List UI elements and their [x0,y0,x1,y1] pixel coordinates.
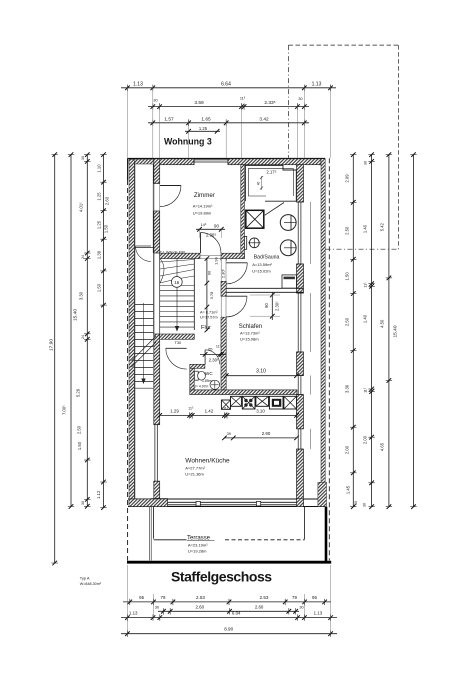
svg-text:T30: T30 [175,341,182,345]
top wall window (glazing) [194,159,228,165]
svg-text:1.99: 1.99 [214,256,219,265]
svg-text:A=13.59m²: A=13.59m² [252,262,272,267]
alcove inner dim [257,176,264,190]
west interior wall of Zimmer/stair (hatched segments) [154,159,160,499]
svg-text:11⁵: 11⁵ [364,387,368,393]
svg-text:Flur: Flur [201,325,211,331]
svg-text:1.39: 1.39 [97,250,102,259]
right dim column chain 5.42/4.50/4.65 [380,152,393,509]
svg-text:2.30⁵: 2.30⁵ [209,358,219,363]
svg-text:Schlafen: Schlafen [239,324,262,330]
bottom extension lines [127,565,330,634]
wall between Zimmer and Bad (hatched) [241,165,245,259]
svg-text:U=17.57m: U=17.57m [200,315,218,319]
svg-text:1.50: 1.50 [345,272,350,281]
dims near stair (1.99 / 90 / 2.30 / 3.78) [205,256,226,332]
south wall of WC + Schlafen (hatched band) [190,390,297,395]
svg-text:1.50: 1.50 [97,283,102,292]
sauna alcove outline [245,165,296,201]
Wohnen south wall with terrace window [128,482,327,506]
svg-text:90: 90 [214,223,219,228]
svg-text:2.30⁵: 2.30⁵ [221,268,226,278]
toilet in WC room [194,371,205,380]
svg-text:Staffelgeschoss: Staffelgeschoss [171,569,272,585]
west wall window of Wohnen [154,425,160,482]
svg-text:24: 24 [81,255,85,259]
svg-text:A=14.19m²: A=14.19m² [193,204,213,209]
top wall thin hatched band (over stair strip) [129,159,154,164]
kitchen counter [221,396,296,409]
svg-text:2.60: 2.60 [196,604,205,609]
svg-text:Wohnen/Küche: Wohnen/Küche [185,458,230,465]
svg-text:WC: WC [205,371,213,376]
WC room walls (hatched) [190,364,205,390]
svg-text:U=21.36m: U=21.36m [185,471,204,476]
svg-text:5.29: 5.29 [76,388,81,397]
svg-text:30: 30 [81,501,85,505]
svg-text:11⁵: 11⁵ [216,345,222,349]
svg-text:6.04: 6.04 [232,611,241,616]
right dim column chain 2.09/2.50/1.50/2.50/3.36/2.00/1.45 [345,152,359,509]
svg-text:2.30⁵: 2.30⁵ [206,233,217,238]
door Schlafen [226,296,247,317]
svg-text:2.53: 2.53 [196,595,205,600]
wash basin 2 [280,240,296,256]
svg-text:16: 16 [174,280,179,285]
svg-text:A=27.77m²: A=27.77m² [185,465,205,470]
svg-text:Bad/Sauna: Bad/Sauna [254,254,280,260]
svg-text:2.90: 2.90 [262,431,271,436]
WC toilet in Bad [244,236,260,249]
bottom dim row B (30/2.60/2.60/30) [155,604,304,614]
svg-text:4.50: 4.50 [380,319,385,328]
room Terrasse [187,535,215,553]
room Bad/Sauna [252,254,279,273]
heavy bottom site line [127,561,331,564]
right dim column 15.40 [393,152,417,509]
svg-text:95: 95 [139,595,144,600]
stair number circle [171,277,182,288]
svg-text:3.78: 3.78 [209,291,214,300]
svg-text:2.17⁵: 2.17⁵ [267,169,277,174]
svg-text:17.90: 17.90 [48,339,54,351]
svg-text:2.60: 2.60 [255,604,264,609]
svg-text:2.50: 2.50 [345,317,350,326]
svg-text:7.00⁵: 7.00⁵ [62,405,67,415]
svg-text:1.29: 1.29 [170,408,179,413]
dim Schlafen door [250,293,280,321]
top dimension row 1 (1.13 / 6.64 / 1.13) [121,81,336,91]
room Zimmer [193,192,215,216]
svg-text:2.60: 2.60 [105,196,110,205]
exterior door at stair top [136,246,152,262]
svg-text:15.40: 15.40 [393,325,399,337]
svg-text:1.42: 1.42 [205,408,214,413]
svg-text:4.01⁵: 4.01⁵ [79,202,84,212]
svg-text:14⁵: 14⁵ [201,223,207,227]
svg-text:90: 90 [264,303,269,308]
outer envelope left: solid then dashed property line [127,158,129,560]
svg-text:1.50: 1.50 [104,224,109,233]
wash basin in WC room [210,380,220,389]
svg-text:3.59: 3.59 [194,100,204,106]
exterior stair walking line with arrow [141,303,145,384]
svg-text:1.40: 1.40 [363,224,368,233]
Flur east wall with door openings (hatched segments) [221,259,226,390]
svg-text:30: 30 [298,97,302,101]
svg-text:1.10: 1.10 [97,164,102,173]
left dim column 15.40 [62,152,79,509]
svg-text:1.25: 1.25 [199,126,208,131]
svg-text:A=13.73m²: A=13.73m² [240,331,260,336]
svg-text:U= 4.97m: U= 4.97m [194,384,209,388]
Zimmer south wall (hatched, with door opening) [160,253,245,258]
svg-text:1.13: 1.13 [312,81,322,87]
svg-text:W=848,30m²: W=848,30m² [80,582,102,586]
svg-text:11⁵: 11⁵ [223,407,229,411]
sauna door diagonal [265,203,284,216]
svg-text:30: 30 [299,605,303,609]
dim Zimmer door [196,223,225,238]
svg-text:30: 30 [153,99,157,103]
svg-text:1.50: 1.50 [77,441,82,450]
heavy right edge below building [325,507,328,564]
ext stair bottom edge [135,387,153,389]
svg-text:1.25: 1.25 [97,192,102,201]
left dim column chain 30/4.01/24/3.30/24/5.29 [76,152,91,508]
west thin exterior wall (hatched) [129,159,134,506]
bottom dim row A (95/79/2.53/2.53/79/95) [123,595,331,605]
top dimension row 3b (1.25) [185,126,220,133]
stair break line (zigzag) [132,336,157,367]
svg-text:3.30: 3.30 [79,291,84,300]
top dimension row 2 (30 / 3.59 / 11.5 / 2.33.5 / 30) [148,97,309,110]
svg-text:30: 30 [81,156,85,160]
svg-text:2.50: 2.50 [77,425,82,434]
svg-text:39: 39 [227,432,231,436]
terrace outline [154,507,305,540]
svg-text:30: 30 [364,161,368,165]
facade gap rails at windows [310,202,312,449]
svg-text:U=15.08m: U=15.08m [240,337,259,342]
left dim column 17.90 [48,152,58,565]
svg-text:4.65: 4.65 [380,442,385,451]
east inner wall (hatched with window gaps) [297,165,304,507]
svg-text:U=15.02m: U=15.02m [252,269,271,274]
svg-text:3.42: 3.42 [259,116,269,122]
bottom dim row C (1.13/30/6.04/30/1.13) [121,611,337,621]
svg-text:11⁵: 11⁵ [364,282,368,288]
svg-text:1.13: 1.13 [314,611,323,616]
door sill lines [154,184,226,318]
door Bad [226,263,247,284]
svg-text:11⁵: 11⁵ [240,97,246,101]
svg-text:3.36: 3.36 [345,384,350,393]
svg-text:A=23.19m²: A=23.19m² [188,542,208,547]
svg-text:A= 8.71m²: A= 8.71m² [200,311,218,315]
svg-text:Zimmer: Zimmer [194,192,215,199]
dim WC door [200,345,226,363]
left dim column chain 1.10/1.25/1.25/1.39/1.50/1.12 [96,152,110,510]
dashed lower-storey line right [328,158,330,560]
room Schlafen [239,324,262,342]
svg-text:U=19.89m: U=19.89m [193,211,212,216]
right dim column chain 30/1.40/11.5/1.40/11.5/2.00 [363,152,375,509]
room Wohnen/Kueche [185,458,230,477]
dim Schlafen width 3.10 [224,369,299,378]
svg-text:79: 79 [292,595,297,600]
svg-text:30: 30 [354,501,358,505]
svg-text:1.40: 1.40 [363,314,368,323]
svg-text:3.10: 3.10 [256,369,266,375]
svg-text:2.00: 2.00 [363,435,368,444]
room WC [194,371,214,388]
svg-text:2.33⁵: 2.33⁵ [264,100,275,106]
svg-text:Wohnung 3: Wohnung 3 [164,137,212,147]
label Typ A [80,576,102,586]
wall Bad/Schlafen (double line) [226,288,303,292]
east outer facade leaf (thin hatch) [321,159,325,507]
svg-text:2.53: 2.53 [260,595,269,600]
svg-text:2.09: 2.09 [345,174,350,183]
svg-text:11⁵: 11⁵ [188,407,194,411]
top wall main hatch left of window [154,159,194,165]
svg-text:1.65: 1.65 [201,116,211,122]
svg-text:79: 79 [161,595,166,600]
door WC [205,350,220,365]
svg-text:Typ A: Typ A [80,576,90,581]
svg-text:30: 30 [363,503,367,507]
svg-text:2.00: 2.00 [345,445,350,454]
top extension lines [127,85,330,158]
svg-text:65: 65 [208,347,213,352]
svg-text:90: 90 [207,270,212,275]
terrace slab edge lines [149,507,151,561]
svg-text:5.42: 5.42 [380,222,385,231]
door Zimmer west [160,186,181,207]
stair walking line with arrow [175,258,179,332]
under-stair wall [160,334,195,339]
svg-text:24: 24 [81,335,85,339]
svg-text:1.25: 1.25 [97,220,102,229]
svg-text:6.64: 6.64 [221,81,231,87]
Vordach box [282,275,296,288]
svg-text:1.57: 1.57 [164,116,174,122]
svg-text:1.12: 1.12 [96,490,101,499]
svg-text:1.13: 1.13 [133,81,143,87]
svg-text:1.89m²: 1.89m² [202,379,213,383]
svg-text:30: 30 [155,605,159,609]
svg-text:40: 40 [257,182,261,186]
bottom dim row D (8.90) [121,627,337,637]
stair landing threshold [135,247,153,249]
interior stair [160,259,195,331]
svg-text:2.30⁵: 2.30⁵ [274,301,279,311]
top dimension row 3 (1.57 / 1.65 / 3.42) [148,116,309,126]
sauna heater [246,210,264,228]
top wall outer line [128,157,326,159]
svg-text:95: 95 [312,595,317,600]
top wall main hatch right of window [228,159,321,165]
south-west hatched corner block [151,499,168,507]
east wall windows (glazing lines) [297,202,304,449]
dim kitchen row 2 [222,431,299,440]
svg-text:8.90: 8.90 [224,627,233,632]
svg-text:U=19.28m: U=19.28m [188,549,207,554]
dashed outline of lower storey (top right) [289,45,399,249]
svg-text:2.50: 2.50 [345,226,350,235]
dim kitchen row 1 [157,407,298,419]
door T30 at stair foot [166,348,187,369]
stair void strip edges [135,162,153,507]
svg-text:1.13: 1.13 [129,611,138,616]
svg-text:3.10: 3.10 [256,408,265,413]
svg-text:1.45: 1.45 [346,485,351,494]
svg-text:15.40: 15.40 [73,309,79,321]
door Zimmer south [201,233,222,254]
svg-text:T-L Wände F90: T-L Wände F90 [160,251,185,255]
room Flur [200,311,218,332]
wash basin 1 [280,215,296,231]
exterior stair treads (left strip) [135,305,153,382]
